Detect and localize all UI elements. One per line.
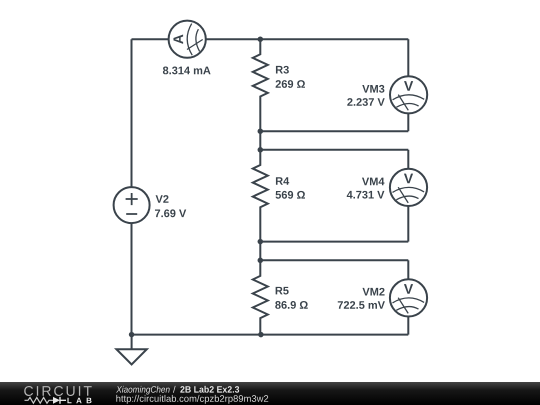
ammeter AM1 xyxy=(169,21,206,58)
wire right vertical (row4 to VM2 top) xyxy=(407,260,409,279)
voltage source V2 name label xyxy=(156,195,169,203)
voltmeter VM3 xyxy=(390,76,427,113)
CircuitLab logo resistor zigzag xyxy=(25,397,54,403)
resistor R4 name label xyxy=(276,177,289,185)
resistor R4 xyxy=(253,150,268,242)
ground xyxy=(116,335,146,365)
wire right vertical (VM4 bottom to row3) xyxy=(407,206,409,242)
voltmeter VM3 value label 2.237 V xyxy=(347,98,384,106)
wire right vertical (VM3 bottom to row1) xyxy=(407,113,409,131)
wire row3 horizontal (R4 bottom node to VM4 branch) xyxy=(260,241,408,243)
voltmeter VM4 xyxy=(390,169,427,206)
CircuitLab logo diode xyxy=(53,397,60,404)
wire left vertical lower (V2 bottom to bottom rail) xyxy=(131,223,133,335)
resistor R3 value label 269 ohm xyxy=(276,80,305,88)
footer author line separator slash xyxy=(173,386,176,393)
voltmeter VM4 value label 4.731 V xyxy=(347,191,385,199)
node junction dot bottom rail / R5 bottom xyxy=(258,332,264,338)
node junction dot row1 / R3 bottom xyxy=(258,128,264,134)
CircuitLab logo wordmark CIRCUIT xyxy=(24,386,91,396)
node junction dot row2 / R4 top xyxy=(258,147,264,153)
footer author line author name XiaomingChen xyxy=(116,386,169,395)
node junction dot bottom rail / ground xyxy=(129,332,135,338)
wire middle vertical (row3 node to row4 node) xyxy=(259,242,261,261)
wire right vertical (row2 to VM4 top) xyxy=(407,150,409,169)
voltmeter VM2 name label xyxy=(362,288,384,296)
voltage source V2 xyxy=(114,187,150,223)
node junction dot row4 / R5 top xyxy=(258,258,264,264)
footer bar xyxy=(0,382,540,405)
resistor R4 value label 569 ohm xyxy=(276,191,305,199)
resistor R5 value label 86.9 ohm xyxy=(275,301,307,309)
resistor R3 name label xyxy=(276,66,289,74)
node junction dot row3 / R4 bottom xyxy=(258,239,264,245)
wire right vertical (VM2 bottom to bottom rail) xyxy=(407,317,409,335)
footer author line title 2B Lab2 Ex2.3 xyxy=(180,386,239,393)
voltmeter VM2 value label 722.5 mV xyxy=(338,301,385,309)
wire row2 horizontal (R4 top node to VM4 branch) xyxy=(260,149,408,151)
wire top-left horizontal (left corner to ammeter) xyxy=(132,38,169,40)
resistor R5 xyxy=(253,260,268,334)
wire left vertical upper (corner to V2 top) xyxy=(131,39,133,187)
voltmeter VM2 xyxy=(390,279,427,316)
wire right vertical (top rail to VM3 top) xyxy=(407,39,409,76)
voltage source V2 value label 7.69 V xyxy=(155,209,186,217)
node junction dot top rail / R3 top xyxy=(258,36,264,42)
wire top-right horizontal (ammeter to top-right corner) xyxy=(206,38,408,40)
footer url line circuitlab.com/cpzb2rp89m3w2 xyxy=(116,395,268,404)
voltmeter VM3 name label xyxy=(362,85,384,93)
wire row4 horizontal (R5 top node to VM2 branch) xyxy=(260,259,408,261)
wire row1 horizontal (R3 bottom node to VM3 branch) xyxy=(260,130,408,132)
resistor R5 name label xyxy=(276,287,289,295)
voltmeter VM4 name label xyxy=(362,178,384,186)
resistor R3 xyxy=(253,39,268,131)
wire middle vertical (row1 node to row2 node) xyxy=(259,131,261,150)
ammeter value label 8.314 mA xyxy=(163,67,211,75)
wire bottom rail horizontal xyxy=(132,334,409,336)
CircuitLab logo wordmark LAB xyxy=(67,398,91,404)
